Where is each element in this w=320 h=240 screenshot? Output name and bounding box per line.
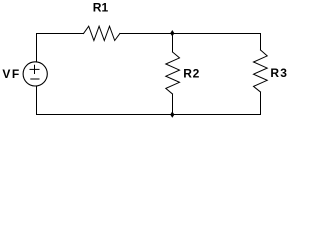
svg-text:R2: R2	[183, 66, 200, 80]
svg-text:R3: R3	[270, 66, 288, 80]
svg-text:VF: VF	[2, 67, 20, 81]
svg-text:R1: R1	[93, 1, 109, 15]
